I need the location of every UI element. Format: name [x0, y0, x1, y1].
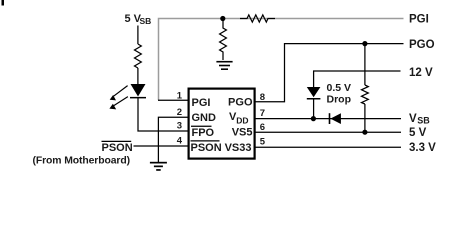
svg-text:SB: SB: [417, 115, 430, 125]
svg-text:PSON: PSON: [102, 142, 133, 154]
svg-text:PGO: PGO: [409, 39, 435, 51]
svg-text:PGI: PGI: [192, 97, 211, 109]
svg-text:8: 8: [260, 92, 265, 103]
svg-text:7: 7: [260, 108, 265, 119]
svg-text:5 V: 5 V: [409, 127, 427, 139]
svg-text:FPO: FPO: [192, 127, 215, 139]
svg-text:PGI: PGI: [409, 14, 429, 26]
svg-text:VS33: VS33: [225, 142, 252, 154]
svg-text:Drop: Drop: [327, 93, 352, 105]
svg-text:(From Motherboard): (From Motherboard): [33, 155, 130, 166]
svg-text:SB: SB: [140, 16, 152, 26]
svg-text:PSON: PSON: [191, 142, 222, 154]
svg-text:4: 4: [177, 136, 183, 147]
svg-text:5: 5: [260, 137, 266, 148]
svg-text:V: V: [409, 113, 417, 125]
svg-text:12 V: 12 V: [409, 67, 433, 79]
svg-text:2: 2: [177, 107, 182, 118]
svg-text:PGO: PGO: [228, 96, 253, 108]
svg-text:VS5: VS5: [232, 126, 253, 138]
svg-text:DD: DD: [236, 116, 248, 126]
svg-text:GND: GND: [192, 112, 217, 124]
svg-text:6: 6: [260, 122, 265, 133]
svg-text:3.3 V: 3.3 V: [409, 142, 436, 154]
svg-text:3: 3: [177, 121, 182, 132]
svg-text:1: 1: [177, 91, 183, 102]
